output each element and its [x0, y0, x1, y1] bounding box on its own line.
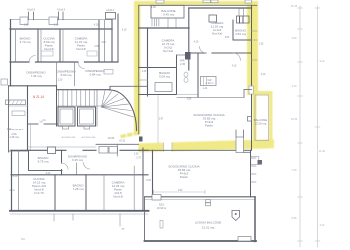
window box on shaft wall [104, 70, 113, 75]
svg-text:Pavim: Pavim [180, 175, 189, 179]
left wall [10, 20, 12, 86]
door jamb [116, 144, 118, 156]
camera bottom wall [139, 67, 177, 69]
svg-text:1.29 mq: 1.29 mq [9, 135, 19, 139]
svg-text:9.75 mq: 9.75 mq [38, 160, 49, 164]
atrio step line [28, 146, 97, 148]
line under strip [9, 105, 28, 107]
svg-text:Nor.Kal: Nor.Kal [212, 32, 222, 36]
svg-text:ASCENSORE: ASCENSORE [82, 136, 96, 139]
small box top [1, 79, 8, 85]
svg-text:4.10: 4.10 [101, 42, 106, 44]
svg-text:2.97: 2.97 [159, 119, 164, 121]
bagno niche line [139, 79, 148, 81]
closet rect cucina [41, 51, 53, 56]
box on wall [48, 147, 56, 154]
svg-text:0.84 mq: 0.84 mq [90, 73, 101, 77]
svg-text:7.20: 7.20 [292, 169, 297, 172]
dark door block [185, 52, 191, 60]
outer left wall lower [8, 86, 10, 152]
corridor bottom wall with door gap [28, 123, 39, 125]
core inner wall [96, 90, 98, 126]
bagno walls [28, 150, 30, 170]
wall under top row rooms [10, 61, 29, 63]
entry door leaf 2 [109, 147, 118, 154]
small jamb [76, 163, 78, 175]
svg-text:2.20 m: 2.20 m [206, 81, 214, 85]
disimpegno bottom wall [9, 85, 57, 87]
svg-text:4.1x0.4: 4.1x0.4 [27, 9, 36, 12]
camera/bagno divider [232, 20, 234, 40]
door step box through band [236, 137, 244, 153]
svg-text:7.34 mq: 7.34 mq [31, 74, 42, 78]
apartment corner dark mark [139, 137, 143, 142]
svg-text:5.45 mq: 5.45 mq [163, 13, 174, 17]
wall line under top yellow [139, 4, 257, 6]
bottom outer wall [10, 210, 149, 212]
yellow band white door gap [164, 142, 173, 151]
camera left wall [147, 28, 149, 96]
svg-text:Nord.Ill: Nord.Ill [44, 47, 54, 51]
elevator feet marks [63, 126, 69, 129]
closet small on top wall [209, 15, 217, 22]
loggia left wall [144, 197, 146, 241]
elevator 1 [58, 107, 75, 126]
loggia inner column mark [160, 221, 163, 229]
rip top wall [177, 54, 189, 56]
bottom row dividers [54, 175, 56, 211]
door arc bagno right [233, 53, 241, 61]
bagno right wall [176, 55, 178, 95]
svg-text:1.50: 1.50 [7, 129, 12, 131]
balcone interior outline [255, 95, 269, 141]
double left wall [11, 150, 13, 211]
svg-text:4.83: 4.83 [225, 37, 230, 39]
atrio bottom wall [96, 143, 139, 145]
curved stairwell wall [110, 90, 137, 131]
kitchen zone line [177, 96, 244, 98]
svg-text:7.26 mq: 7.26 mq [73, 187, 84, 191]
svg-text:4.54 mq: 4.54 mq [235, 32, 246, 36]
svg-text:ASCENSORE: ASCENSORE [62, 136, 76, 139]
dimension numbers right col 1 [291, 5, 326, 227]
loggia top wall [145, 196, 255, 198]
row top wall [11, 174, 148, 176]
svg-text:4.10: 4.10 [94, 25, 99, 27]
svg-text:5.09 mq: 5.09 mq [159, 75, 170, 79]
svg-text:Nord.Ill: Nord.Ill [113, 195, 123, 199]
svg-text:4.1x0.4: 4.1x0.4 [106, 9, 115, 12]
chimney rect 1 [20, 17, 28, 25]
svg-text:+0.15: +0.15 [119, 141, 126, 143]
wall jog to upper level [109, 86, 111, 89]
vent tick pair 2 [58, 12, 60, 20]
svg-text:±0.00: ±0.00 [108, 136, 115, 140]
svg-text:3.85: 3.85 [187, 99, 192, 101]
svg-text:8.45: 8.45 [292, 217, 297, 220]
svg-text:11.40: 11.40 [319, 150, 326, 153]
svg-text:4.10: 4.10 [261, 74, 266, 76]
door arc in wall y62 left [29, 56, 36, 63]
soggiorno left wall [197, 53, 199, 97]
svg-text:1.45: 1.45 [142, 71, 147, 73]
svg-text:h=2.70: h=2.70 [34, 191, 44, 195]
chimney rect 2 [49, 17, 58, 25]
outer thin roof line [10, 19, 112, 21]
hatched balcony strip [6, 100, 26, 105]
camera top wall [139, 27, 189, 29]
svg-text:4.13: 4.13 [232, 66, 237, 68]
small window box [12, 111, 25, 116]
soggiorno left wall [152, 150, 154, 197]
dim witness line in soggiorno [157, 96, 159, 144]
closet right with ticks [237, 16, 250, 23]
bagno bottom wall right [233, 39, 252, 41]
stair fan treads [102, 91, 134, 118]
small shaft above closet [239, 9, 244, 17]
small balcone box [151, 5, 184, 18]
svg-text:LOGGIA BALCONE: LOGGIA BALCONE [195, 221, 222, 225]
right section top wall [189, 7, 252, 9]
svg-text:3.10: 3.10 [122, 30, 127, 32]
door arc in wall y62 right [78, 62, 85, 69]
bathroom fixtures [184, 72, 188, 77]
window on right wall [249, 86, 254, 94]
top wall of lower flat [11, 149, 66, 151]
loggia door marks [206, 200, 211, 203]
svg-text:2.10: 2.10 [54, 25, 59, 27]
stair treads [59, 90, 95, 106]
svg-text:1x.xx: 1x.xx [9, 190, 15, 192]
corridor left wall [27, 86, 29, 151]
svg-text:1.50: 1.50 [24, 25, 29, 27]
main top wall [10, 28, 112, 30]
door arc disimpegno [84, 163, 91, 170]
yellow highlight balcony outline [253, 91, 273, 145]
yellow highlight diagonal dashes [120, 131, 139, 138]
svg-text:4.73 mq: 4.73 mq [20, 40, 31, 44]
roof ticks above yellow [156, 0, 164, 3]
svg-text:Nor.Kal: Nor.Kal [163, 49, 173, 53]
entry door leaf 1 [99, 147, 108, 154]
svg-text:1.50: 1.50 [151, 6, 156, 9]
yellow highlight left edge [134, 1, 141, 134]
soggiorno right wall [250, 150, 252, 197]
elevator 2 [78, 107, 96, 126]
svg-text:1.70: 1.70 [136, 158, 141, 160]
core left wall [56, 86, 58, 126]
below-wall section marks [53, 214, 55, 221]
yellow highlight top edge [134, 1, 257, 5]
dim line in soggiorno [154, 191, 206, 193]
camera right wall [188, 8, 190, 70]
svg-text:21.01 mq: 21.01 mq [202, 226, 215, 230]
svg-text:1.30: 1.30 [134, 154, 139, 156]
disimpegno divider 2 [74, 62, 76, 86]
door arc camera [200, 47, 207, 54]
stair landing line [57, 105, 102, 107]
vent box right [106, 13, 116, 20]
door arc bagno [62, 163, 69, 170]
gr closet [201, 77, 217, 86]
disimpegno divider 1 [56, 62, 58, 86]
svg-text:4.10: 4.10 [194, 42, 199, 44]
svg-text:0.45: 0.45 [146, 180, 151, 182]
loggia notch [238, 237, 251, 242]
svg-text:4.1x0.4: 4.1x0.4 [57, 9, 66, 12]
right wall ticks [251, 158, 257, 182]
bagno bottom wall [139, 94, 177, 96]
balcone wall icon [248, 117, 252, 122]
wall under yellow band [139, 149, 252, 151]
svg-text:Pavim: Pavim [205, 124, 214, 128]
right wall of flat [251, 5, 253, 150]
wall under camera right with door gap [189, 52, 206, 54]
svg-text:2.45: 2.45 [180, 62, 186, 66]
bathtub [155, 83, 172, 92]
svg-text:2.20: 2.20 [58, 80, 63, 82]
dim ticks on right wall [252, 30, 258, 32]
dashed entry line [9, 129, 24, 131]
svg-text:6.25 mq: 6.25 mq [72, 158, 83, 162]
yellow highlight bottom band [139, 139, 275, 152]
vent tick pair 1 [28, 12, 30, 20]
svg-text:4.90: 4.90 [178, 190, 183, 192]
svg-text:6.10: 6.10 [13, 176, 18, 178]
svg-text:10.35: 10.35 [291, 118, 298, 121]
wall above bagno row [9, 150, 28, 152]
loggia bottom wall [145, 240, 257, 242]
room divider walls [15, 29, 17, 62]
svg-text:Nord.Ill: Nord.Ill [76, 47, 86, 51]
svg-text:5.60 mq: 5.60 mq [61, 73, 72, 77]
svg-text:40.35: 40.35 [291, 5, 298, 8]
loggia shield icon [232, 211, 240, 221]
svg-text:N 21.14: N 21.14 [33, 95, 44, 99]
svg-text:2.23: 2.23 [46, 173, 51, 175]
loggia door box [152, 195, 161, 201]
stair top wall [57, 89, 111, 91]
balcone door hatch [152, 18, 176, 28]
closet rect camera [87, 51, 97, 56]
svg-text:13.20 mq: 13.20 mq [255, 122, 267, 126]
svg-text:4.46: 4.46 [94, 46, 99, 48]
svg-text:9.10: 9.10 [320, 60, 325, 63]
yellow highlight right edge [247, 1, 258, 95]
svg-text:4.10: 4.10 [292, 85, 297, 88]
svg-text:3.10: 3.10 [320, 224, 325, 227]
wall line inside left yellow [138, 5, 140, 134]
loggia right wall [254, 197, 256, 242]
step rects [251, 157, 259, 165]
svg-text:1.35: 1.35 [259, 44, 264, 46]
svg-text:4.50: 4.50 [292, 37, 297, 40]
svg-text:16.90 m: 16.90 m [157, 206, 166, 210]
svg-text:1.44: 1.44 [203, 88, 208, 90]
